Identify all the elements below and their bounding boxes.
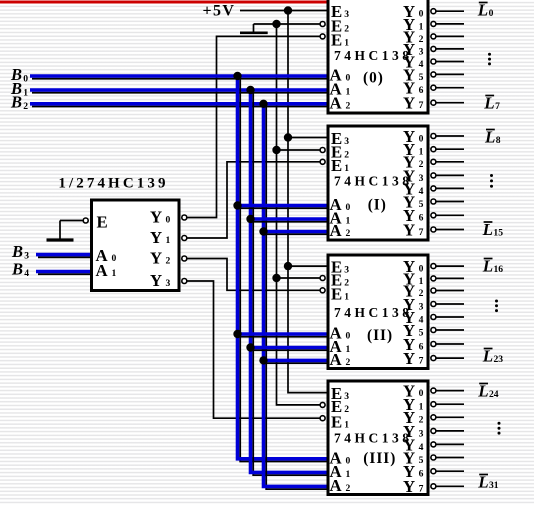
- svg-text:L: L: [477, 1, 488, 20]
- svg-text:Y: Y: [150, 228, 162, 247]
- ellipsis dots for U3 outputs: [495, 300, 498, 303]
- svg-text:0: 0: [346, 331, 351, 342]
- U5 output bubble Y2: [182, 256, 187, 261]
- svg-text:5: 5: [419, 199, 424, 210]
- svg-text:(0): (0): [363, 70, 384, 87]
- U1 output bubble Y2: [431, 34, 436, 39]
- wire U4 Y6 output stub: [436, 470, 464, 472]
- wire U2 Y0 output stub: [436, 135, 464, 137]
- svg-text:3: 3: [344, 136, 349, 147]
- junction J13: [233, 330, 241, 338]
- ellipsis dots for U4 outputs: [498, 422, 501, 425]
- wire U4 Y0 output stub: [436, 390, 464, 392]
- svg-text:A: A: [330, 476, 342, 495]
- U2 output bubble Y5: [431, 199, 436, 204]
- svg-text:74HC138: 74HC138: [334, 431, 413, 446]
- svg-text:L: L: [483, 94, 494, 113]
- svg-text:E: E: [331, 156, 342, 175]
- svg-text:1: 1: [419, 21, 424, 32]
- svg-text:7: 7: [419, 100, 424, 111]
- svg-text:5: 5: [419, 72, 424, 83]
- wire: +5V to U1 E3: [240, 10, 327, 12]
- U4 enable bubble E1: [320, 416, 325, 421]
- svg-text:2: 2: [419, 288, 424, 299]
- wire U3 Y2 output stub: [436, 290, 464, 292]
- U3 output bubble Y2: [431, 288, 436, 293]
- svg-text:74HC138: 74HC138: [334, 48, 413, 63]
- svg-text:Y: Y: [403, 94, 415, 113]
- svg-text:4: 4: [419, 442, 424, 453]
- wire: ground to U5 E: [60, 220, 83, 222]
- wire: +5V vertical rail to E3 pins: [288, 11, 327, 393]
- svg-text:4: 4: [419, 59, 424, 70]
- U4 output bubble Y3: [431, 428, 436, 433]
- wire U2 Y2 output stub: [436, 161, 464, 163]
- U5 enable bubble E: [83, 218, 88, 223]
- svg-text:0: 0: [419, 9, 424, 20]
- wire U4 Y5 output stub: [436, 457, 464, 459]
- U1 output bubble Y3: [431, 46, 436, 51]
- wire B4 (blue bus, horizontal): [38, 273, 92, 275]
- wire U3 Y5 output stub: [436, 329, 464, 331]
- svg-text:1: 1: [344, 292, 349, 303]
- svg-text:5: 5: [419, 327, 424, 338]
- ground symbol (top, for E2 rail): [253, 24, 255, 32]
- svg-text:1: 1: [419, 402, 424, 413]
- U2 output bubble Y0: [431, 134, 436, 139]
- svg-text:E: E: [331, 412, 342, 431]
- wire B1 (blue bus, horizontal): [32, 92, 328, 94]
- svg-text:1: 1: [346, 344, 351, 355]
- svg-text:4: 4: [419, 314, 424, 325]
- svg-text:2: 2: [346, 357, 351, 368]
- wire U4 Y4 output stub: [436, 443, 464, 445]
- svg-text:7: 7: [495, 101, 500, 112]
- svg-text:0: 0: [346, 73, 351, 84]
- wire U3 Y0 output stub: [436, 265, 464, 267]
- svg-text:7: 7: [419, 356, 424, 367]
- wire U4 Y3 output stub: [436, 430, 464, 432]
- svg-text:3: 3: [419, 173, 424, 184]
- U1 output bubble Y1: [431, 21, 436, 26]
- wire U2 Y7 output stub: [436, 229, 464, 231]
- svg-text:Y: Y: [150, 249, 162, 268]
- wire U1 Y4 output stub: [436, 61, 464, 63]
- svg-text:3: 3: [24, 251, 29, 262]
- wire U4 Y7 output stub: [436, 485, 464, 487]
- node L0 output label: [479, 2, 488, 4]
- node L16 output label: [484, 258, 493, 260]
- svg-text:E: E: [331, 31, 342, 50]
- svg-text:E: E: [331, 285, 342, 304]
- svg-text:3: 3: [344, 265, 349, 276]
- svg-text:B: B: [11, 242, 23, 261]
- U1 output bubble Y0: [431, 9, 436, 14]
- wire B2 to U3 A2 (blue bus stub): [266, 362, 328, 364]
- wire: U5 Y2 to U3 E1: [186, 259, 320, 291]
- junction J11: [246, 215, 254, 223]
- svg-text:L: L: [482, 257, 493, 276]
- U4 output bubble Y4: [431, 442, 436, 447]
- wire U1 Y7 output stub: [436, 102, 464, 104]
- decoder U2 74HC138 (I): [328, 126, 428, 240]
- U5 output bubble Y3: [182, 279, 187, 284]
- svg-text:3: 3: [419, 301, 424, 312]
- U2 output bubble Y3: [431, 173, 436, 178]
- wire U4 Y1 output stub: [436, 403, 464, 405]
- wire U1 Y3 output stub: [436, 48, 464, 50]
- svg-text:Y: Y: [150, 271, 162, 290]
- wire U2 Y4 output stub: [436, 187, 464, 189]
- svg-text:2: 2: [166, 256, 171, 267]
- svg-text:L: L: [482, 347, 493, 366]
- svg-text:L: L: [484, 128, 495, 147]
- wire B1 to U3 A1 (blue bus stub): [253, 349, 328, 351]
- U2 output bubble Y1: [431, 147, 436, 152]
- svg-text:2: 2: [344, 404, 349, 415]
- svg-text:1: 1: [166, 235, 171, 246]
- U3 output bubble Y4: [431, 315, 436, 320]
- svg-text:2: 2: [344, 23, 349, 34]
- wire U2 Y5 output stub: [436, 201, 464, 203]
- junction J7: [233, 72, 241, 80]
- U1 output bubble Y7: [431, 100, 436, 105]
- wire: U5 Y0 to U1 E1: [186, 36, 320, 217]
- U4 output bubble Y0: [431, 388, 436, 393]
- svg-text:0: 0: [419, 264, 424, 275]
- U4 output bubble Y2: [431, 415, 436, 420]
- svg-text:A: A: [330, 93, 342, 112]
- U5 output bubble Y1: [182, 236, 187, 241]
- junction J12: [259, 227, 267, 235]
- wire U2 Y1 output stub: [436, 148, 464, 150]
- U1 enable bubble E2: [320, 22, 325, 27]
- svg-text:1: 1: [344, 163, 349, 174]
- svg-text:2: 2: [419, 159, 424, 170]
- wire U2 Y6 output stub: [436, 214, 464, 216]
- wire U1 Y1 output stub: [436, 23, 464, 25]
- svg-text:2: 2: [346, 100, 351, 111]
- wire U1 Y0 output stub: [436, 10, 464, 12]
- wire U3 Y1 output stub: [436, 277, 464, 279]
- svg-text:2: 2: [344, 149, 349, 160]
- wire: ground vertical rail to E2 pins: [277, 24, 321, 405]
- svg-text:6: 6: [419, 341, 424, 352]
- svg-text:L: L: [477, 382, 488, 401]
- svg-text:L: L: [482, 220, 493, 239]
- svg-text:23: 23: [494, 354, 504, 365]
- svg-text:(III): (III): [363, 450, 396, 467]
- wire: E3 stub chip U2: [288, 137, 327, 139]
- svg-text:7: 7: [419, 227, 424, 238]
- svg-text:1: 1: [23, 88, 28, 99]
- svg-text:2: 2: [419, 34, 424, 45]
- svg-text:8: 8: [496, 135, 501, 146]
- svg-text:1: 1: [344, 419, 349, 430]
- U1 output bubble Y5: [431, 72, 436, 77]
- wire U2 Y3 output stub: [436, 174, 464, 176]
- ellipsis dots for U2 outputs: [490, 174, 493, 177]
- wire B3 (blue bus, horizontal): [38, 256, 92, 258]
- svg-text:16: 16: [494, 264, 504, 275]
- svg-text:0: 0: [419, 133, 424, 144]
- junction J2: [272, 20, 280, 28]
- U3 output bubble Y0: [431, 264, 436, 269]
- U4 output bubble Y1: [431, 402, 436, 407]
- svg-text:Y: Y: [403, 220, 415, 239]
- U3 output bubble Y1: [431, 276, 436, 281]
- svg-text:15: 15: [493, 228, 503, 239]
- node L8 output label: [486, 129, 495, 131]
- wire B1 rail (blue bus, vertical branch): [253, 92, 328, 475]
- U4 output bubble Y6: [431, 469, 436, 474]
- svg-text:3: 3: [419, 46, 424, 57]
- svg-text:6: 6: [419, 85, 424, 96]
- junction J5: [284, 262, 292, 270]
- U3 output bubble Y5: [431, 328, 436, 333]
- svg-text:1: 1: [419, 147, 424, 158]
- svg-text:4: 4: [419, 186, 424, 197]
- wire B2 rail (blue bus, vertical branch): [266, 106, 328, 489]
- wire B0 (blue bus, horizontal): [32, 78, 328, 80]
- U1 output bubble Y6: [431, 85, 436, 90]
- svg-text:Y: Y: [403, 349, 415, 368]
- svg-text:5: 5: [419, 455, 424, 466]
- svg-text:0: 0: [419, 388, 424, 399]
- svg-text:0: 0: [166, 215, 171, 226]
- U3 output bubble Y6: [431, 342, 436, 347]
- svg-text:1: 1: [346, 216, 351, 227]
- wire U3 Y7 output stub: [436, 357, 464, 359]
- svg-text:B: B: [10, 93, 22, 112]
- U4 output bubble Y7: [431, 484, 436, 489]
- svg-text:2: 2: [346, 228, 351, 239]
- U2 output bubble Y4: [431, 186, 436, 191]
- junction J1: [284, 6, 292, 14]
- U2 output bubble Y6: [431, 213, 436, 218]
- svg-text:+5V: +5V: [203, 2, 236, 19]
- node L7 output label: [485, 95, 494, 97]
- svg-text:31: 31: [489, 480, 499, 491]
- wire U1 Y2 output stub: [436, 35, 464, 37]
- svg-text:3: 3: [419, 428, 424, 439]
- U1 output bubble Y4: [431, 59, 436, 64]
- svg-text:4: 4: [24, 268, 29, 279]
- ground symbol (U5 E input): [59, 221, 61, 239]
- wire U1 Y5 output stub: [436, 73, 464, 75]
- decoder U5 74HC139: [92, 200, 180, 291]
- junction J8: [246, 86, 254, 94]
- U1 enable bubble E1: [320, 34, 325, 39]
- svg-text:2: 2: [346, 483, 351, 494]
- svg-text:1: 1: [344, 38, 349, 49]
- decoder U4 74HC138 (III): [328, 381, 428, 495]
- node L31 output label: [479, 474, 488, 476]
- wire: E3 stub chip U3: [288, 265, 327, 267]
- junction J10: [233, 201, 241, 209]
- wire B1 to U2 A1 (blue bus stub): [253, 221, 328, 223]
- junction J3: [284, 133, 292, 141]
- wire U4 Y2 output stub: [436, 416, 464, 418]
- ellipsis dots for U1 outputs: [488, 53, 491, 56]
- wire: E2 stub chip U3: [277, 277, 321, 279]
- svg-text:3: 3: [344, 9, 349, 20]
- svg-text:74HC138: 74HC138: [334, 174, 413, 189]
- svg-text:24: 24: [489, 389, 499, 400]
- svg-text:E: E: [97, 213, 108, 232]
- svg-text:Y: Y: [150, 208, 162, 227]
- svg-text:1: 1: [419, 276, 424, 287]
- junction J14: [246, 343, 254, 351]
- wire B2 to U2 A2 (blue bus stub): [266, 233, 328, 235]
- svg-text:6: 6: [419, 213, 424, 224]
- U2 output bubble Y7: [431, 227, 436, 232]
- wire B2 (blue bus, horizontal): [32, 106, 328, 108]
- U2 enable bubble E1: [320, 159, 325, 164]
- U3 enable bubble E2: [320, 276, 325, 281]
- wire U1 Y6 output stub: [436, 87, 464, 89]
- wire: E2 stub chip U2: [277, 149, 321, 151]
- svg-text:0: 0: [346, 455, 351, 466]
- svg-text:7: 7: [419, 484, 424, 495]
- wire B0 rail (blue bus, vertical branch): [240, 78, 328, 462]
- svg-text:3: 3: [344, 391, 349, 402]
- svg-text:Y: Y: [403, 477, 415, 496]
- svg-text:0: 0: [112, 253, 117, 264]
- wire: U5 Y3 to U4 E1: [186, 281, 320, 418]
- U4 output bubble Y5: [431, 455, 436, 460]
- svg-text:1: 1: [346, 469, 351, 480]
- svg-text:0: 0: [346, 202, 351, 213]
- wire U3 Y4 output stub: [436, 316, 464, 318]
- U2 enable bubble E2: [320, 148, 325, 153]
- wire U3 Y6 output stub: [436, 343, 464, 345]
- svg-text:1/274HC139: 1/274HC139: [58, 175, 168, 191]
- svg-text:L: L: [477, 473, 488, 492]
- red top rule: [0, 1, 327, 4]
- junction J9: [259, 100, 267, 108]
- svg-text:A: A: [330, 221, 342, 240]
- wire: U5 Y1 to U2 E1: [186, 162, 320, 238]
- junction J6: [272, 274, 280, 282]
- node L15 output label: [484, 221, 493, 223]
- svg-text:6: 6: [419, 469, 424, 480]
- decoder U3 74HC138 (II): [328, 255, 428, 369]
- svg-text:A: A: [96, 261, 108, 280]
- wire: ground to U1 E2: [254, 23, 321, 25]
- wire B0 to U3 A0 (blue bus stub): [240, 336, 328, 338]
- svg-text:2: 2: [23, 101, 28, 112]
- svg-text:0: 0: [23, 74, 28, 85]
- junction J15: [259, 356, 267, 364]
- svg-text:2: 2: [419, 415, 424, 426]
- U2 output bubble Y2: [431, 159, 436, 164]
- U3 output bubble Y3: [431, 302, 436, 307]
- wire U3 Y3 output stub: [436, 303, 464, 305]
- svg-text:A: A: [330, 350, 342, 369]
- junction J4: [272, 146, 280, 154]
- svg-text:(II): (II): [367, 327, 393, 344]
- svg-text:1: 1: [346, 87, 351, 98]
- svg-text:2: 2: [344, 277, 349, 288]
- svg-text:3: 3: [166, 278, 171, 289]
- node L23 output label: [484, 348, 493, 350]
- U5 output bubble Y0: [182, 215, 187, 220]
- svg-text:(I): (I): [368, 197, 387, 214]
- svg-text:0: 0: [489, 8, 494, 19]
- U4 enable bubble E2: [320, 402, 325, 407]
- node L24 output label: [479, 383, 488, 385]
- decoder U1 74HC138 (0): [328, 0, 428, 113]
- svg-text:1: 1: [112, 268, 117, 279]
- U3 output bubble Y7: [431, 356, 436, 361]
- wire B0 to U2 A0 (blue bus stub): [240, 207, 328, 209]
- svg-text:B: B: [11, 260, 23, 279]
- svg-text:74HC138: 74HC138: [334, 305, 413, 320]
- U3 enable bubble E1: [320, 288, 325, 293]
